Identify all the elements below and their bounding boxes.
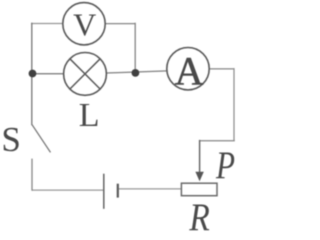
- lamp X cross: [70, 59, 100, 89]
- wire right vertical down: [233, 68, 235, 141]
- svg-text:S: S: [1, 120, 20, 159]
- wiper arrowhead: [195, 172, 203, 181]
- wire lamp to ammeter: [106, 71, 167, 73]
- battery long plate: [103, 174, 105, 209]
- svg-text:P: P: [215, 144, 235, 187]
- ammeter A circle: [167, 47, 209, 89]
- wire box to battery: [118, 188, 181, 190]
- svg-text:R: R: [189, 196, 210, 232]
- wiper arrow shaft P: [199, 140, 201, 174]
- wire top-left horizontal to voltmeter: [31, 23, 63, 25]
- lamp L circle: [64, 53, 107, 96]
- svg-text:A: A: [175, 48, 204, 93]
- node junction dot right: [132, 69, 140, 77]
- wire battery to left corner: [32, 189, 104, 191]
- wire voltmeter right vertical down: [134, 23, 136, 72]
- wire to wiper arm: [200, 140, 235, 142]
- wire bottom-left vertical up to switch: [31, 159, 33, 191]
- switch S blade: [32, 125, 51, 153]
- wire ammeter right: [209, 68, 234, 70]
- voltmeter V circle: [63, 3, 105, 45]
- svg-text:V: V: [73, 7, 96, 43]
- node junction dot left: [29, 70, 37, 78]
- battery short plate: [117, 184, 119, 198]
- wire node to lamp: [32, 73, 64, 75]
- wire voltmeter to right corner: [105, 23, 135, 25]
- svg-text:L: L: [79, 97, 100, 134]
- wire left vertical: [31, 23, 33, 126]
- rheostat R box: [181, 183, 217, 196]
